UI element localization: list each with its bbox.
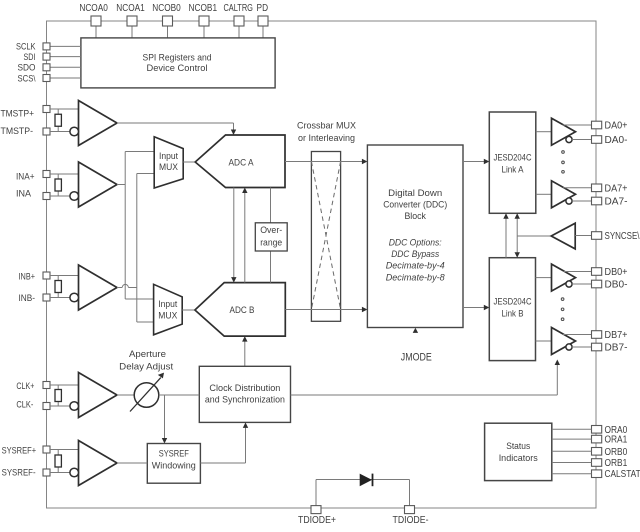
- svg-text:range: range: [260, 237, 282, 247]
- svg-text:Windowing: Windowing: [152, 461, 196, 471]
- svg-text:INB-: INB-: [19, 292, 36, 303]
- svg-text:INA+: INA+: [16, 170, 35, 181]
- svg-text:Link B: Link B: [502, 308, 524, 319]
- svg-text:SYSREF: SYSREF: [159, 449, 189, 459]
- svg-text:Status: Status: [506, 441, 530, 452]
- svg-text:Decimate-by-8: Decimate-by-8: [386, 273, 446, 284]
- svg-text:Indicators: Indicators: [499, 453, 538, 464]
- svg-text:DDC Bypass: DDC Bypass: [391, 249, 439, 260]
- svg-text:INA: INA: [16, 188, 32, 199]
- svg-text:SYSREF+: SYSREF+: [2, 444, 37, 455]
- svg-text:JMODE: JMODE: [401, 351, 432, 363]
- svg-text:ORA1: ORA1: [605, 435, 628, 446]
- svg-text:NCOB1: NCOB1: [189, 3, 218, 14]
- svg-text:DA7-: DA7-: [605, 197, 628, 208]
- svg-text:TDIODE-: TDIODE-: [393, 515, 429, 526]
- svg-text:ORB0: ORB0: [605, 447, 628, 458]
- svg-text:PD: PD: [257, 3, 269, 14]
- svg-text:NCOA1: NCOA1: [116, 3, 145, 14]
- svg-text:Block: Block: [404, 211, 426, 222]
- svg-text:Input: Input: [159, 151, 178, 161]
- svg-text:INB+: INB+: [19, 270, 36, 281]
- svg-text:Device Control: Device Control: [147, 63, 208, 74]
- svg-text:CALTRG: CALTRG: [223, 3, 253, 14]
- svg-text:SDI: SDI: [24, 51, 36, 62]
- svg-text:JESD204C: JESD204C: [494, 296, 532, 307]
- svg-text:or Interleaving: or Interleaving: [298, 133, 355, 144]
- svg-text:DB0+: DB0+: [605, 267, 628, 278]
- svg-text:Crossbar MUX: Crossbar MUX: [297, 121, 357, 132]
- svg-text:SCS\: SCS\: [18, 72, 36, 83]
- svg-text:DA0+: DA0+: [605, 121, 628, 132]
- svg-text:Delay Adjust: Delay Adjust: [119, 361, 173, 372]
- svg-text:MUX: MUX: [158, 310, 177, 320]
- svg-text:SYNCSE\: SYNCSE\: [605, 231, 640, 242]
- svg-text:Link A: Link A: [502, 164, 525, 175]
- svg-text:DA7+: DA7+: [605, 183, 628, 194]
- svg-text:SPI Registers and: SPI Registers and: [143, 52, 212, 63]
- svg-text:ADC A: ADC A: [229, 157, 255, 168]
- svg-text:ORB1: ORB1: [605, 458, 628, 469]
- svg-text:MUX: MUX: [159, 162, 178, 172]
- svg-text:SDO: SDO: [18, 62, 36, 73]
- svg-text:NCOB0: NCOB0: [152, 3, 181, 14]
- svg-text:DB0-: DB0-: [605, 280, 628, 291]
- svg-text:CALSTAT: CALSTAT: [605, 469, 640, 480]
- svg-text:SYSREF-: SYSREF-: [2, 466, 36, 477]
- svg-text:DA0-: DA0-: [605, 135, 628, 146]
- svg-text:JESD204C: JESD204C: [494, 152, 532, 163]
- svg-text:DB7-: DB7-: [605, 343, 628, 354]
- svg-text:Input: Input: [158, 299, 177, 309]
- svg-text:Clock Distribution: Clock Distribution: [209, 383, 280, 394]
- svg-text:Converter (DDC): Converter (DDC): [383, 199, 447, 210]
- svg-text:Aperture: Aperture: [129, 349, 166, 360]
- svg-text:CLK+: CLK+: [16, 380, 34, 391]
- svg-text:TDIODE+: TDIODE+: [298, 515, 336, 526]
- svg-text:Over-: Over-: [260, 225, 282, 235]
- svg-text:DDC Options:: DDC Options:: [389, 237, 442, 248]
- svg-text:and Synchronization: and Synchronization: [205, 394, 285, 405]
- svg-text:Digital Down: Digital Down: [388, 188, 442, 199]
- svg-text:NCOA0: NCOA0: [79, 3, 108, 14]
- svg-text:Decimate-by-4: Decimate-by-4: [386, 261, 445, 272]
- svg-text:CLK-: CLK-: [16, 398, 33, 409]
- svg-text:TMSTP+: TMSTP+: [1, 107, 35, 118]
- svg-text:DB7+: DB7+: [605, 330, 628, 341]
- svg-text:TMSTP-: TMSTP-: [1, 125, 34, 136]
- svg-text:ADC B: ADC B: [230, 305, 255, 316]
